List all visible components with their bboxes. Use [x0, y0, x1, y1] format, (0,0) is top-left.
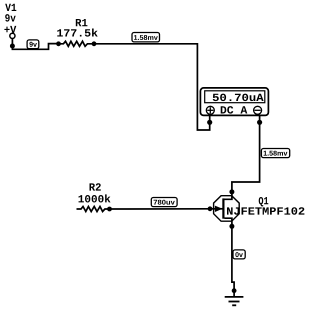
resistor R2 [77, 183, 112, 211]
wire +V to R1 [12, 39, 58, 50]
wire ammeter right terminal down and over to Q1 drain [232, 122, 260, 192]
transistor Q1 N-JFET body (octagon circle) [214, 196, 240, 222]
voltage source V1 labels: V1 9v +V [4, 4, 16, 33]
Q1 drain contact and lead [225, 192, 232, 199]
voltage probe label 9v [27, 40, 39, 49]
junction dot gate node [208, 206, 213, 211]
voltage probe label 1.58mv (top wire) [132, 33, 160, 42]
ammeter left terminal lead and dot [207, 115, 212, 125]
wire R2 to Q1 gate [110, 208, 211, 210]
voltage probe label 0v [233, 250, 245, 259]
Q1 source pin dot [229, 224, 234, 229]
ammeter right terminal lead and dot [257, 115, 262, 125]
resistor R1 [56, 19, 98, 46]
ammeter 50.70uA DC A [200, 88, 268, 116]
Q1 source contact and lead [225, 218, 232, 226]
ground symbol [225, 288, 244, 305]
Q1 reference label [259, 197, 269, 207]
Q1 drain pin dot [229, 189, 234, 194]
Q1 gate lead with arrow [210, 206, 223, 212]
junction dot at +V node [10, 44, 15, 49]
Q1 part label NJFETMPF102 [227, 207, 304, 214]
+V terminal (open circle) [10, 33, 15, 38]
voltage probe label 1.58mv (right wire) [261, 149, 289, 158]
Q1 channel bar [222, 198, 224, 218]
wire R1 to ammeter left terminal [94, 44, 210, 130]
wire Q1 source to ground [232, 226, 234, 290]
voltage probe label 780uv [151, 198, 177, 207]
